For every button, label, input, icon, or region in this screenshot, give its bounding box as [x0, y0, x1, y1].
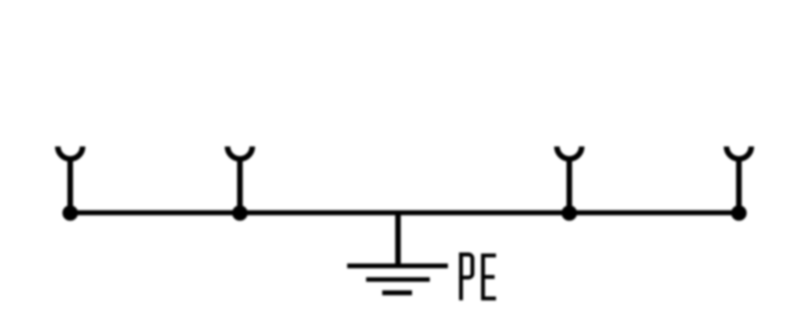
node junction dot 3	[562, 205, 578, 221]
ground bar bottom	[382, 290, 412, 295]
ground bar middle	[366, 277, 430, 282]
terminal clamp arc T4	[727, 147, 752, 159]
label PE letter P	[459, 255, 472, 301]
node junction dot 1	[62, 205, 78, 221]
wire ground stem	[395, 213, 401, 266]
node junction dot 2	[232, 205, 248, 221]
wire stem T3	[566, 157, 572, 213]
wire stem T4	[736, 157, 742, 213]
wire stem T1	[67, 157, 73, 213]
wire bus	[70, 210, 739, 215]
wire stem T2	[237, 157, 243, 213]
ground bar top	[347, 263, 448, 268]
terminal clamp arc T3	[557, 147, 582, 159]
terminal clamp arc T1	[58, 147, 83, 159]
label PE letter E	[483, 255, 496, 298]
terminal clamp arc T2	[228, 147, 253, 159]
node junction dot 4	[731, 205, 747, 221]
